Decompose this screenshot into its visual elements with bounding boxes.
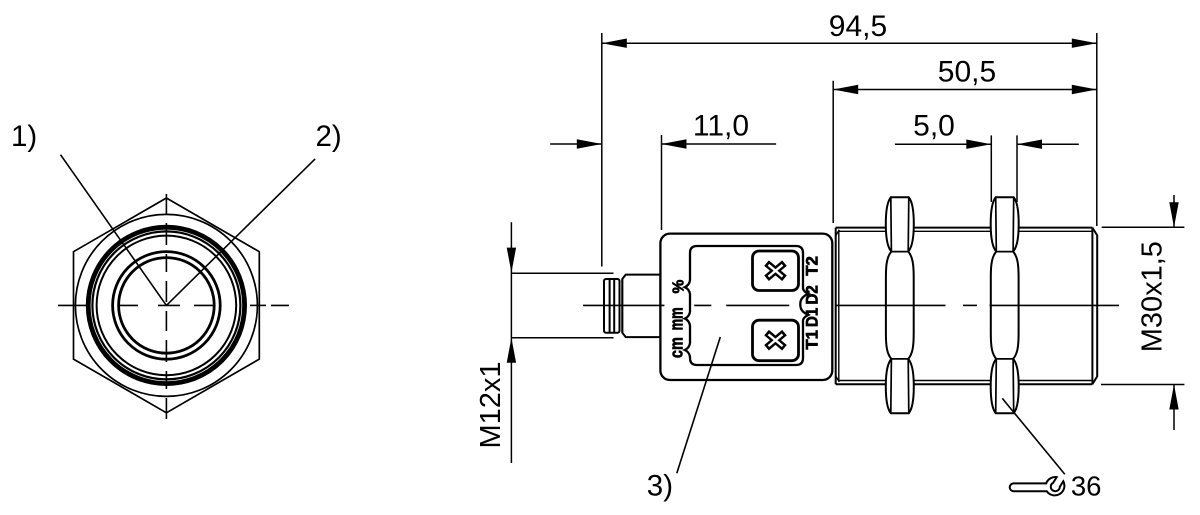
side view centerline (dash-dot axis)	[583, 304, 1119, 306]
svg-text:3): 3)	[647, 469, 673, 502]
dimension M30x1,5	[1101, 195, 1184, 430]
svg-text:11,0: 11,0	[693, 110, 749, 143]
hex nut 1	[886, 197, 914, 413]
housing (rounded rectangle)	[660, 234, 832, 380]
leader from 1) to center	[61, 155, 167, 306]
dimension 94,5	[602, 33, 1097, 267]
teach button upper	[753, 251, 799, 291]
connector step line	[621, 279, 623, 333]
wrench icon (spanner size symbol)	[1010, 477, 1065, 495]
M12 connector body	[622, 275, 660, 338]
circle (transducer outer)	[113, 252, 221, 360]
svg-text:5,0: 5,0	[913, 110, 955, 143]
thread minor line bottom	[839, 380, 1092, 382]
outer circle (washer face)	[75, 214, 257, 396]
leader from 3) to panel	[677, 337, 721, 473]
svg-text:cm: cm	[667, 337, 687, 358]
barrel left chamfer top	[836, 230, 840, 236]
svg-text:2): 2)	[316, 120, 342, 153]
svg-text:M12x1: M12x1	[475, 361, 507, 448]
barrel left chamfer bottom	[836, 376, 840, 382]
circle (housing step)	[97, 236, 237, 376]
M12 connector thread rings	[604, 279, 620, 333]
barrel top edge	[836, 227, 1093, 229]
svg-text:T1: T1	[803, 330, 821, 350]
barrel (M30 threaded body)	[836, 228, 1098, 385]
svg-text:1): 1)	[11, 120, 37, 153]
leader from nut 2 to wrench	[1002, 398, 1065, 474]
svg-text:36: 36	[1071, 470, 1102, 501]
svg-text:T2: T2	[803, 256, 821, 276]
thread circle (thick)	[88, 227, 244, 383]
dimension M12x1	[511, 222, 613, 463]
svg-text:%: %	[671, 280, 688, 294]
teach button lower	[753, 320, 799, 361]
leader from 2) to center	[166, 159, 315, 306]
horizontal centerline	[58, 304, 289, 306]
thread minor line top	[839, 230, 1092, 232]
svg-text:D2: D2	[803, 285, 821, 304]
svg-text:94,5: 94,5	[829, 10, 887, 43]
barrel left face lines	[835, 228, 837, 385]
thread minor circle	[92, 231, 240, 379]
hexagon (nut outline, front view)	[74, 198, 260, 413]
dimension 50,5	[833, 81, 1097, 223]
svg-text:D1: D1	[803, 308, 821, 327]
hex nut 2	[991, 197, 1019, 413]
X icon upper button	[764, 260, 787, 281]
barrel right end face with chamfer	[1091, 228, 1093, 385]
label panel with scalloped edges	[685, 246, 808, 365]
svg-text:M30x1,5: M30x1,5	[1137, 241, 1169, 352]
X icon lower button	[764, 330, 787, 351]
circle (transducer inner)	[119, 258, 215, 354]
svg-text:50,5: 50,5	[938, 55, 996, 88]
barrel bottom edge	[836, 383, 1093, 385]
dimension 11,0	[550, 135, 776, 230]
svg-text:mm: mm	[667, 307, 687, 330]
dimension 5,0	[895, 135, 1079, 202]
vertical centerline	[165, 194, 167, 419]
